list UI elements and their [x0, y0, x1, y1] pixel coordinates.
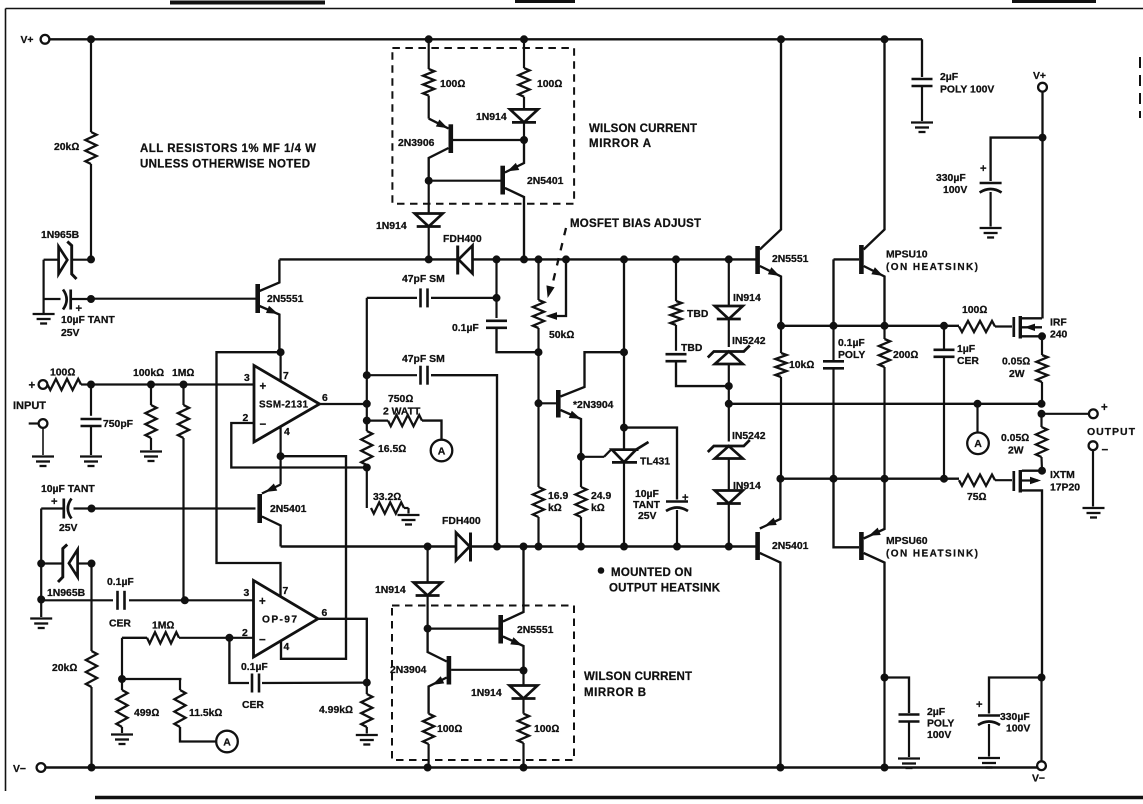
wire SSM pin2 loop [231, 423, 367, 468]
capacitor 0.1uF POLY [823, 326, 865, 479]
node 3904 emitter/TL431 ref [578, 453, 585, 460]
resistor 750R 2W [367, 394, 442, 440]
node mirror-A base/diode [521, 137, 528, 144]
svg-text:kΩ: kΩ [548, 503, 562, 514]
node outrail/0.05 [1038, 400, 1045, 407]
resistor 20k bottom [52, 564, 97, 768]
svg-text:330µF: 330µF [1000, 712, 1030, 723]
output - terminal [1083, 441, 1109, 517]
svg-text:100V: 100V [943, 185, 967, 196]
V- terminal right [1032, 761, 1046, 784]
V+ terminal top-left [21, 35, 50, 46]
node lb/47pF [494, 543, 501, 550]
resistor 0.05R lower [1001, 414, 1047, 471]
input + terminal [29, 380, 48, 392]
svg-text:MIRROR B: MIRROR B [584, 687, 646, 699]
svg-text:2µF: 2µF [940, 72, 958, 83]
transistor 2N5401 mirror-A [503, 140, 564, 259]
svg-text:100Ω: 100Ω [534, 724, 559, 735]
svg-text:2N5551: 2N5551 [517, 625, 554, 636]
capacitor 0.1uF CER servo [229, 638, 366, 711]
svg-text:75Ω: 75Ω [967, 492, 987, 503]
node lb/24.9k [578, 543, 585, 550]
svg-text:1N914: 1N914 [471, 688, 502, 699]
svg-text:100kΩ: 100kΩ [133, 368, 164, 379]
svg-text:4: 4 [284, 427, 290, 438]
svg-text:MPSU60: MPSU60 [886, 536, 928, 547]
svg-text:+: + [260, 381, 267, 393]
wire clamp chain lower [728, 404, 730, 442]
svg-text:0.1µF: 0.1µF [107, 577, 134, 588]
transistor MPSU60 [834, 479, 979, 678]
svg-text:IN5242: IN5242 [732, 336, 766, 347]
V- terminal left [13, 763, 45, 775]
svg-text:20kΩ: 20kΩ [54, 142, 79, 153]
wire SSM pin3 line [91, 383, 254, 385]
wire x624 bus [623, 259, 625, 449]
V+ terminal right [1033, 71, 1047, 92]
resistor 200R [879, 326, 918, 479]
resistor 100R gate [959, 305, 1012, 332]
node outplus [1038, 410, 1045, 417]
node 20k/zener [88, 256, 95, 263]
diode 1N914 above mirror-B [375, 547, 442, 629]
note all-resistors [140, 143, 316, 171]
resistor 16.9k [533, 403, 569, 546]
svg-text:CER: CER [957, 356, 979, 367]
wire MPSU60 to rail [883, 678, 885, 768]
svg-text:2N5551: 2N5551 [772, 254, 809, 265]
transistor 2N3904 mirror-B [390, 629, 524, 714]
svg-text:TBD: TBD [681, 343, 703, 354]
node dh/200R [881, 322, 888, 329]
svg-text:UNLESS OTHERWISE NOTED: UNLESS OTHERWISE NOTED [140, 159, 310, 171]
potentiometer 50k [533, 259, 574, 403]
node TL431 top [621, 424, 628, 431]
label OUTPUT [1087, 426, 1136, 438]
svg-text:OP-97: OP-97 [262, 615, 297, 626]
svg-text:750Ω: 750Ω [388, 394, 413, 405]
wire SSM pin7 [280, 352, 282, 381]
wire bus to 47pF node [495, 259, 497, 318]
capacitor 1uF CER [934, 326, 980, 479]
resistor 33.2R [371, 492, 420, 525]
mosfet IXTM17P20 [1014, 470, 1080, 678]
svg-text:OUTPUT: OUTPUT [1087, 426, 1136, 438]
svg-text:330µF: 330µF [936, 173, 966, 184]
svg-text:SSM-2131: SSM-2131 [259, 400, 309, 411]
wire SSM pin4 [280, 427, 282, 457]
svg-text:499Ω: 499Ω [134, 708, 159, 719]
node 2N5551L emitter/pin7 [277, 349, 284, 356]
meter A offset [216, 731, 238, 753]
TL431 [581, 442, 670, 547]
wire clamp to rail [728, 386, 730, 404]
svg-text:MOUNTED ON: MOUNTED ON [611, 567, 692, 579]
svg-text:100Ω: 100Ω [437, 724, 462, 735]
node clamp/TBD [725, 383, 732, 390]
svg-text:TBD: TBD [687, 309, 709, 320]
node mirror-B base [424, 625, 431, 632]
node 47pF-1 right [493, 294, 500, 301]
diode 1N914 mirror-A [476, 109, 538, 140]
svg-text:kΩ: kΩ [591, 503, 605, 514]
label MOSFET BIAS ADJUST [570, 218, 701, 230]
svg-text:200Ω: 200Ω [893, 350, 918, 361]
svg-text:4.99kΩ: 4.99kΩ [319, 705, 353, 716]
wire SSM output [320, 403, 367, 405]
svg-text:3: 3 [244, 588, 250, 599]
svg-text:A: A [974, 438, 982, 450]
zener 1N965B bottom [41, 545, 91, 600]
node 624/collector [621, 349, 628, 356]
svg-text:POLY: POLY [927, 719, 954, 730]
node SSM out [363, 400, 370, 407]
svg-text:6: 6 [322, 393, 328, 404]
wire clamp chain upper [728, 259, 730, 306]
node tant/base [88, 505, 95, 512]
wire pin7 to OP97 staircase [217, 352, 281, 596]
transistor 2N3906 [398, 119, 524, 181]
wire zener-cap loop left [42, 260, 44, 299]
resistor 16.5R [361, 421, 406, 508]
node dl/200R [881, 475, 888, 482]
node zenerB right [88, 560, 95, 567]
node 47pF-2 left [363, 372, 370, 379]
node outrail/meter [974, 400, 981, 407]
svg-text:0.05Ω: 0.05Ω [1001, 433, 1029, 444]
svg-text:2N5401: 2N5401 [772, 541, 809, 552]
resistor 20k top-left [54, 39, 97, 259]
svg-text:TL431: TL431 [640, 457, 670, 468]
svg-text:2N3904: 2N3904 [390, 665, 427, 676]
node bus/diodechain [725, 256, 732, 263]
node dl/1uF [941, 475, 948, 482]
node V+/100R-A1 [425, 36, 432, 43]
diode 1N914 mirror-B [471, 671, 538, 714]
svg-text:11.5kΩ: 11.5kΩ [189, 708, 222, 719]
input - terminal [29, 419, 54, 466]
svg-text:10µF: 10µF [635, 489, 659, 500]
node out97/4.99k [363, 679, 370, 686]
svg-text:1N914: 1N914 [476, 112, 507, 123]
node zenerB left [38, 560, 45, 567]
svg-text:2 WATT: 2 WATT [383, 407, 421, 418]
resistor 100R input [48, 368, 92, 391]
svg-text:(ON HEATSINK): (ON HEATSINK) [886, 549, 978, 560]
svg-text:1µF: 1µF [957, 344, 975, 355]
node V+/330uF [1039, 134, 1046, 141]
svg-text:(ON HEATSINK): (ON HEATSINK) [886, 262, 978, 273]
capacitor 750pF [80, 385, 133, 467]
svg-text:20kΩ: 20kΩ [52, 663, 77, 674]
op-amp SSM-2131 [243, 366, 329, 443]
svg-text:2N3906: 2N3906 [398, 138, 435, 149]
svg-text:17P20: 17P20 [1050, 483, 1080, 494]
svg-text:2N5551: 2N5551 [267, 294, 304, 305]
transistor MPSU10 [834, 39, 979, 326]
dashed box Wilson mirror A [392, 48, 574, 204]
node bus/pot [535, 256, 542, 263]
svg-text:+: + [259, 596, 266, 608]
node dh/1uF [941, 322, 948, 329]
svg-text:7: 7 [283, 371, 289, 382]
transistor 2N5551 left [258, 260, 304, 353]
node lb/clamp [725, 543, 732, 550]
node rail/20k [88, 764, 95, 771]
resistor 100R mirror-B left [423, 714, 462, 768]
resistor 1M vertical [172, 368, 194, 601]
svg-text:OUTPUT HEATSINK: OUTPUT HEATSINK [609, 583, 721, 595]
wire 1M elbow [121, 638, 123, 679]
node lb/10uF [674, 543, 681, 550]
wire bottom rail [45, 766, 1037, 768]
svg-text:POLY: POLY [838, 350, 865, 361]
svg-text:IN5242: IN5242 [732, 431, 766, 442]
wire output rail [729, 403, 1042, 405]
node V+/20k [88, 36, 95, 43]
wire tant left leg [40, 509, 42, 564]
diode 1N914 clamp upper [715, 293, 761, 347]
node rail/2N5401 [777, 764, 784, 771]
resistor 499R [111, 679, 159, 744]
resistor 100R mirror-B right [518, 714, 559, 768]
diode FDH400 top [443, 234, 482, 275]
svg-text:240: 240 [1050, 330, 1068, 341]
svg-text:100Ω: 100Ω [50, 368, 75, 379]
ground lower-left [30, 619, 52, 629]
svg-text:25V: 25V [59, 523, 78, 534]
svg-text:2N5401: 2N5401 [270, 504, 307, 515]
zener 1N965B top [41, 230, 91, 279]
resistor 24.9k [575, 457, 611, 547]
node pin3/1M [180, 381, 187, 388]
svg-text:WILSON CURRENT: WILSON CURRENT [584, 671, 692, 683]
wire mid bus [279, 258, 756, 260]
resistor TBD [670, 259, 708, 350]
svg-text:2N5401: 2N5401 [527, 176, 564, 187]
wire mirror-B base line [428, 627, 499, 629]
svg-text:16.9: 16.9 [548, 491, 568, 502]
transistor 2N3904 bias [539, 352, 625, 457]
node fb/16.5 [363, 464, 370, 471]
wire 2N5401L base [92, 507, 256, 509]
svg-text:100Ω: 100Ω [962, 305, 987, 316]
meter A output [967, 404, 989, 454]
svg-text:10kΩ: 10kΩ [789, 360, 814, 371]
dashed arrow bias adjust [547, 228, 566, 297]
wire OP97 output [318, 619, 367, 683]
wire rail to 2uF [921, 39, 923, 77]
capacitor 47pF SM lower [367, 354, 497, 547]
svg-text:100Ω: 100Ω [537, 79, 562, 90]
svg-text:+: + [29, 380, 36, 392]
label mounted-on [598, 567, 720, 595]
node V+/100R-A2 [521, 36, 528, 43]
svg-text:10µF TANT: 10µF TANT [41, 484, 95, 495]
node pot/0.1uF [535, 349, 542, 356]
svg-text:0.05Ω: 0.05Ω [1002, 357, 1030, 368]
node 750R branch [363, 417, 370, 424]
diode FDH400 bottom [442, 516, 481, 562]
svg-text:MOSFET BIAS ADJUST: MOSFET BIAS ADJUST [570, 218, 701, 230]
node dl/2N5401 [777, 475, 784, 482]
op-amp OP-97 [242, 581, 328, 658]
svg-text:IXTM: IXTM [1050, 470, 1075, 481]
svg-text:25V: 25V [61, 328, 80, 339]
svg-text:47pF SM: 47pF SM [402, 354, 445, 365]
svg-text:MIRROR A: MIRROR A [589, 138, 651, 150]
svg-text:MPSU10: MPSU10 [886, 250, 928, 261]
capacitor 2uF POLY bottom [885, 678, 955, 769]
svg-text:7: 7 [283, 586, 289, 597]
svg-text:24.9: 24.9 [591, 491, 611, 502]
node bus/wiper [563, 256, 570, 263]
svg-text:WILSON CURRENT: WILSON CURRENT [589, 123, 697, 135]
node mirror-B emitter [520, 667, 527, 674]
capacitor 10uF TANT mid [624, 428, 689, 547]
node bus/1N914 [425, 256, 432, 263]
svg-text:A: A [438, 445, 446, 457]
mosfet IRF240 [1014, 316, 1068, 341]
svg-text:CER: CER [109, 619, 131, 630]
zener IN5242 upper [708, 336, 766, 386]
svg-text:*2N3904: *2N3904 [573, 400, 614, 411]
svg-text:33.2Ω: 33.2Ω [373, 492, 401, 503]
node dh/2N5551 [778, 322, 785, 329]
svg-text:V−: V− [1032, 774, 1045, 785]
svg-text:3: 3 [244, 373, 250, 384]
wire drive-high [781, 325, 959, 327]
node pin2/0.1uF [226, 634, 233, 641]
svg-text:IRF: IRF [1050, 318, 1067, 329]
capacitor 47pF SM top [367, 274, 497, 307]
svg-text:V+: V+ [21, 35, 34, 46]
transistor 2N5401 bottom [758, 479, 809, 768]
resistor 0.05R upper [1002, 336, 1048, 404]
capacitor TBD [666, 343, 729, 386]
zener IN5242 lower [708, 431, 766, 491]
svg-text:TANT: TANT [633, 500, 661, 511]
node gnd/0.1uF line [38, 596, 45, 603]
node dh/MPSU10base [830, 322, 837, 329]
resistor 100k [133, 368, 164, 461]
svg-text:+: + [51, 496, 58, 508]
svg-text:V+: V+ [1033, 71, 1046, 82]
wire V+ right column [1041, 92, 1043, 319]
resistor 100R mirror-A left [423, 39, 465, 118]
node IRF source [1039, 333, 1046, 340]
svg-text:CER: CER [242, 700, 264, 711]
svg-text:100V: 100V [1006, 724, 1030, 735]
svg-text:1MΩ: 1MΩ [152, 621, 174, 632]
dashed box Wilson mirror B [392, 606, 574, 761]
resistor 4.99k [319, 683, 378, 745]
meter A feedback [431, 440, 453, 462]
node lb/TL431 [621, 543, 628, 550]
svg-text:−: − [259, 635, 266, 647]
svg-text:+: + [682, 492, 689, 504]
wire drive-low [780, 478, 959, 480]
node clamp/outrail [725, 400, 732, 407]
svg-text:2W: 2W [1009, 369, 1025, 380]
svg-text:A: A [223, 736, 231, 748]
capacitor 0.1uF mid [452, 321, 539, 352]
node bus/624 [621, 256, 628, 263]
wire to + terminal [1042, 413, 1090, 415]
svg-text:1N914: 1N914 [375, 585, 406, 596]
node lb/16.9k [535, 543, 542, 550]
svg-text:POLY 100V: POLY 100V [940, 85, 994, 96]
resistor 75R gate [959, 475, 1012, 503]
resistor 1M horizontal [122, 621, 254, 644]
capacitor 0.1uF CER input [41, 577, 254, 630]
node input/750pF [88, 381, 95, 388]
svg-text:1N914: 1N914 [376, 221, 407, 232]
svg-text:0.1µF: 0.1µF [241, 662, 268, 673]
node V+/2N5551R [778, 36, 785, 43]
svg-text:ALL RESISTORS 1% MF 1/4 W: ALL RESISTORS 1% MF 1/4 W [140, 143, 316, 155]
node pot/3904base [535, 400, 542, 407]
svg-text:2µF: 2µF [927, 707, 945, 718]
svg-text:47pF SM: 47pF SM [402, 274, 445, 285]
svg-text:INPUT: INPUT [13, 400, 46, 412]
svg-text:V−: V− [13, 764, 26, 775]
svg-text:1N965B: 1N965B [47, 588, 86, 599]
transistor 2N5551 mirror-B [501, 547, 554, 671]
resistor 11.5k [122, 679, 222, 742]
svg-text:50kΩ: 50kΩ [549, 330, 574, 341]
label Wilson mirror A [589, 123, 697, 150]
svg-text:−: − [260, 419, 267, 431]
svg-text:FDH400: FDH400 [442, 516, 481, 527]
transistor 2N5551 right [758, 39, 809, 326]
node pin3/100k [148, 381, 155, 388]
svg-text:+: + [76, 303, 83, 315]
svg-text:16.5Ω: 16.5Ω [378, 444, 406, 455]
node bus/WCMA [521, 256, 528, 263]
label Wilson mirror B [584, 671, 692, 699]
node pin4 rail [277, 453, 284, 460]
node IXTM top [1039, 467, 1046, 474]
transistor 2N5401 left [260, 484, 307, 546]
wire zener left to gnd [40, 564, 42, 618]
node zenercap/base [88, 296, 95, 303]
diode 1N914 below mirror-A [376, 181, 443, 260]
svg-text:−: − [1102, 445, 1109, 457]
svg-text:+: + [976, 699, 983, 711]
svg-text:+: + [980, 163, 987, 175]
node dl/MPSU60base [830, 475, 837, 482]
svg-text:25V: 25V [638, 511, 657, 522]
capacitor 10uF TANT top [44, 290, 116, 340]
wire x366 column [366, 298, 368, 421]
node OP97 pin3/1M [181, 597, 188, 604]
wire pin4 to OP97 pin4 [281, 456, 346, 659]
svg-text:750pF: 750pF [103, 419, 133, 430]
node rail/100RA [424, 764, 431, 771]
node bus/TBD [673, 256, 680, 263]
svg-text:4: 4 [284, 642, 290, 653]
wire 2N5551L base line [91, 298, 256, 300]
capacitor 10uF TANT lower [41, 484, 95, 534]
node bus/0.1uF [493, 256, 500, 263]
svg-text:100Ω: 100Ω [440, 79, 465, 90]
node mirror-A collector/base [425, 177, 432, 184]
node rail/MPSU60 [881, 764, 888, 771]
wire 330uF elbow [991, 138, 1043, 181]
resistor 100R mirror-A right [518, 39, 562, 109]
